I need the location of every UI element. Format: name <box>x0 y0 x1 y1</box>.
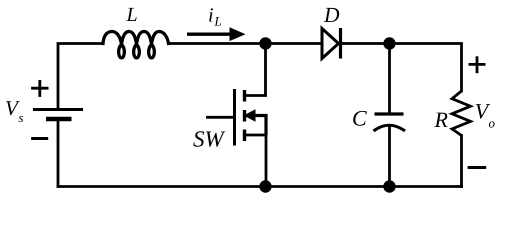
svg-text:o: o <box>489 116 496 131</box>
diode triangle <box>322 29 339 59</box>
current arrow iL <box>187 27 246 41</box>
drain lead from top node <box>245 44 266 96</box>
source lead down to bottom node <box>265 135 268 187</box>
svg-text:C: C <box>352 105 367 130</box>
channel bottom segment <box>243 130 246 142</box>
junction node top at SW drain <box>259 37 271 49</box>
svg-text:D: D <box>323 3 340 27</box>
capacitor flat plate <box>375 112 404 115</box>
svg-text:L: L <box>214 14 222 29</box>
top lead from node to plate <box>388 44 391 113</box>
inductor L <box>103 32 169 58</box>
svg-text:i: i <box>208 5 214 27</box>
channel middle segment <box>243 110 246 122</box>
battery plus sign <box>31 80 48 97</box>
svg-text:SW: SW <box>193 127 226 152</box>
output minus sign <box>468 166 487 169</box>
svg-text:s: s <box>19 110 24 125</box>
junction node top at capacitor <box>383 37 395 49</box>
wire: inductor to diode <box>169 42 323 45</box>
wire: resistor to bottom-right corner <box>460 136 463 187</box>
wire top-left: corner to inductor <box>58 44 103 108</box>
battery long plate (+) <box>33 108 83 111</box>
battery minus sign <box>31 137 48 140</box>
svg-text:L: L <box>126 4 138 26</box>
wire: battery bottom to bottom-left corner <box>57 121 60 187</box>
diode D <box>322 28 341 59</box>
battery short plate (-) <box>46 117 72 122</box>
svg-text:R: R <box>434 107 449 132</box>
source stub <box>245 134 267 137</box>
wire: diode to top-right corner, down right side to resistor <box>341 44 462 92</box>
wire bottom <box>58 185 462 188</box>
junction node bottom at SW source <box>259 180 271 192</box>
diode cathode bar <box>339 28 342 59</box>
capacitor C branch <box>374 44 406 187</box>
body arrow shaft and source connection <box>254 116 266 136</box>
channel top segment <box>243 90 246 102</box>
output plus sign <box>469 56 486 73</box>
resistor R (zigzag) <box>452 91 471 136</box>
bottom lead <box>388 127 391 187</box>
voltage source Vs (battery) <box>33 110 83 120</box>
body arrow head (points left) <box>244 109 256 121</box>
MOSFET SW <box>206 44 266 187</box>
gate bar <box>233 89 236 146</box>
junction node bottom at capacitor <box>383 180 395 192</box>
gate lead <box>206 116 235 119</box>
capacitor curved plate <box>374 125 406 131</box>
